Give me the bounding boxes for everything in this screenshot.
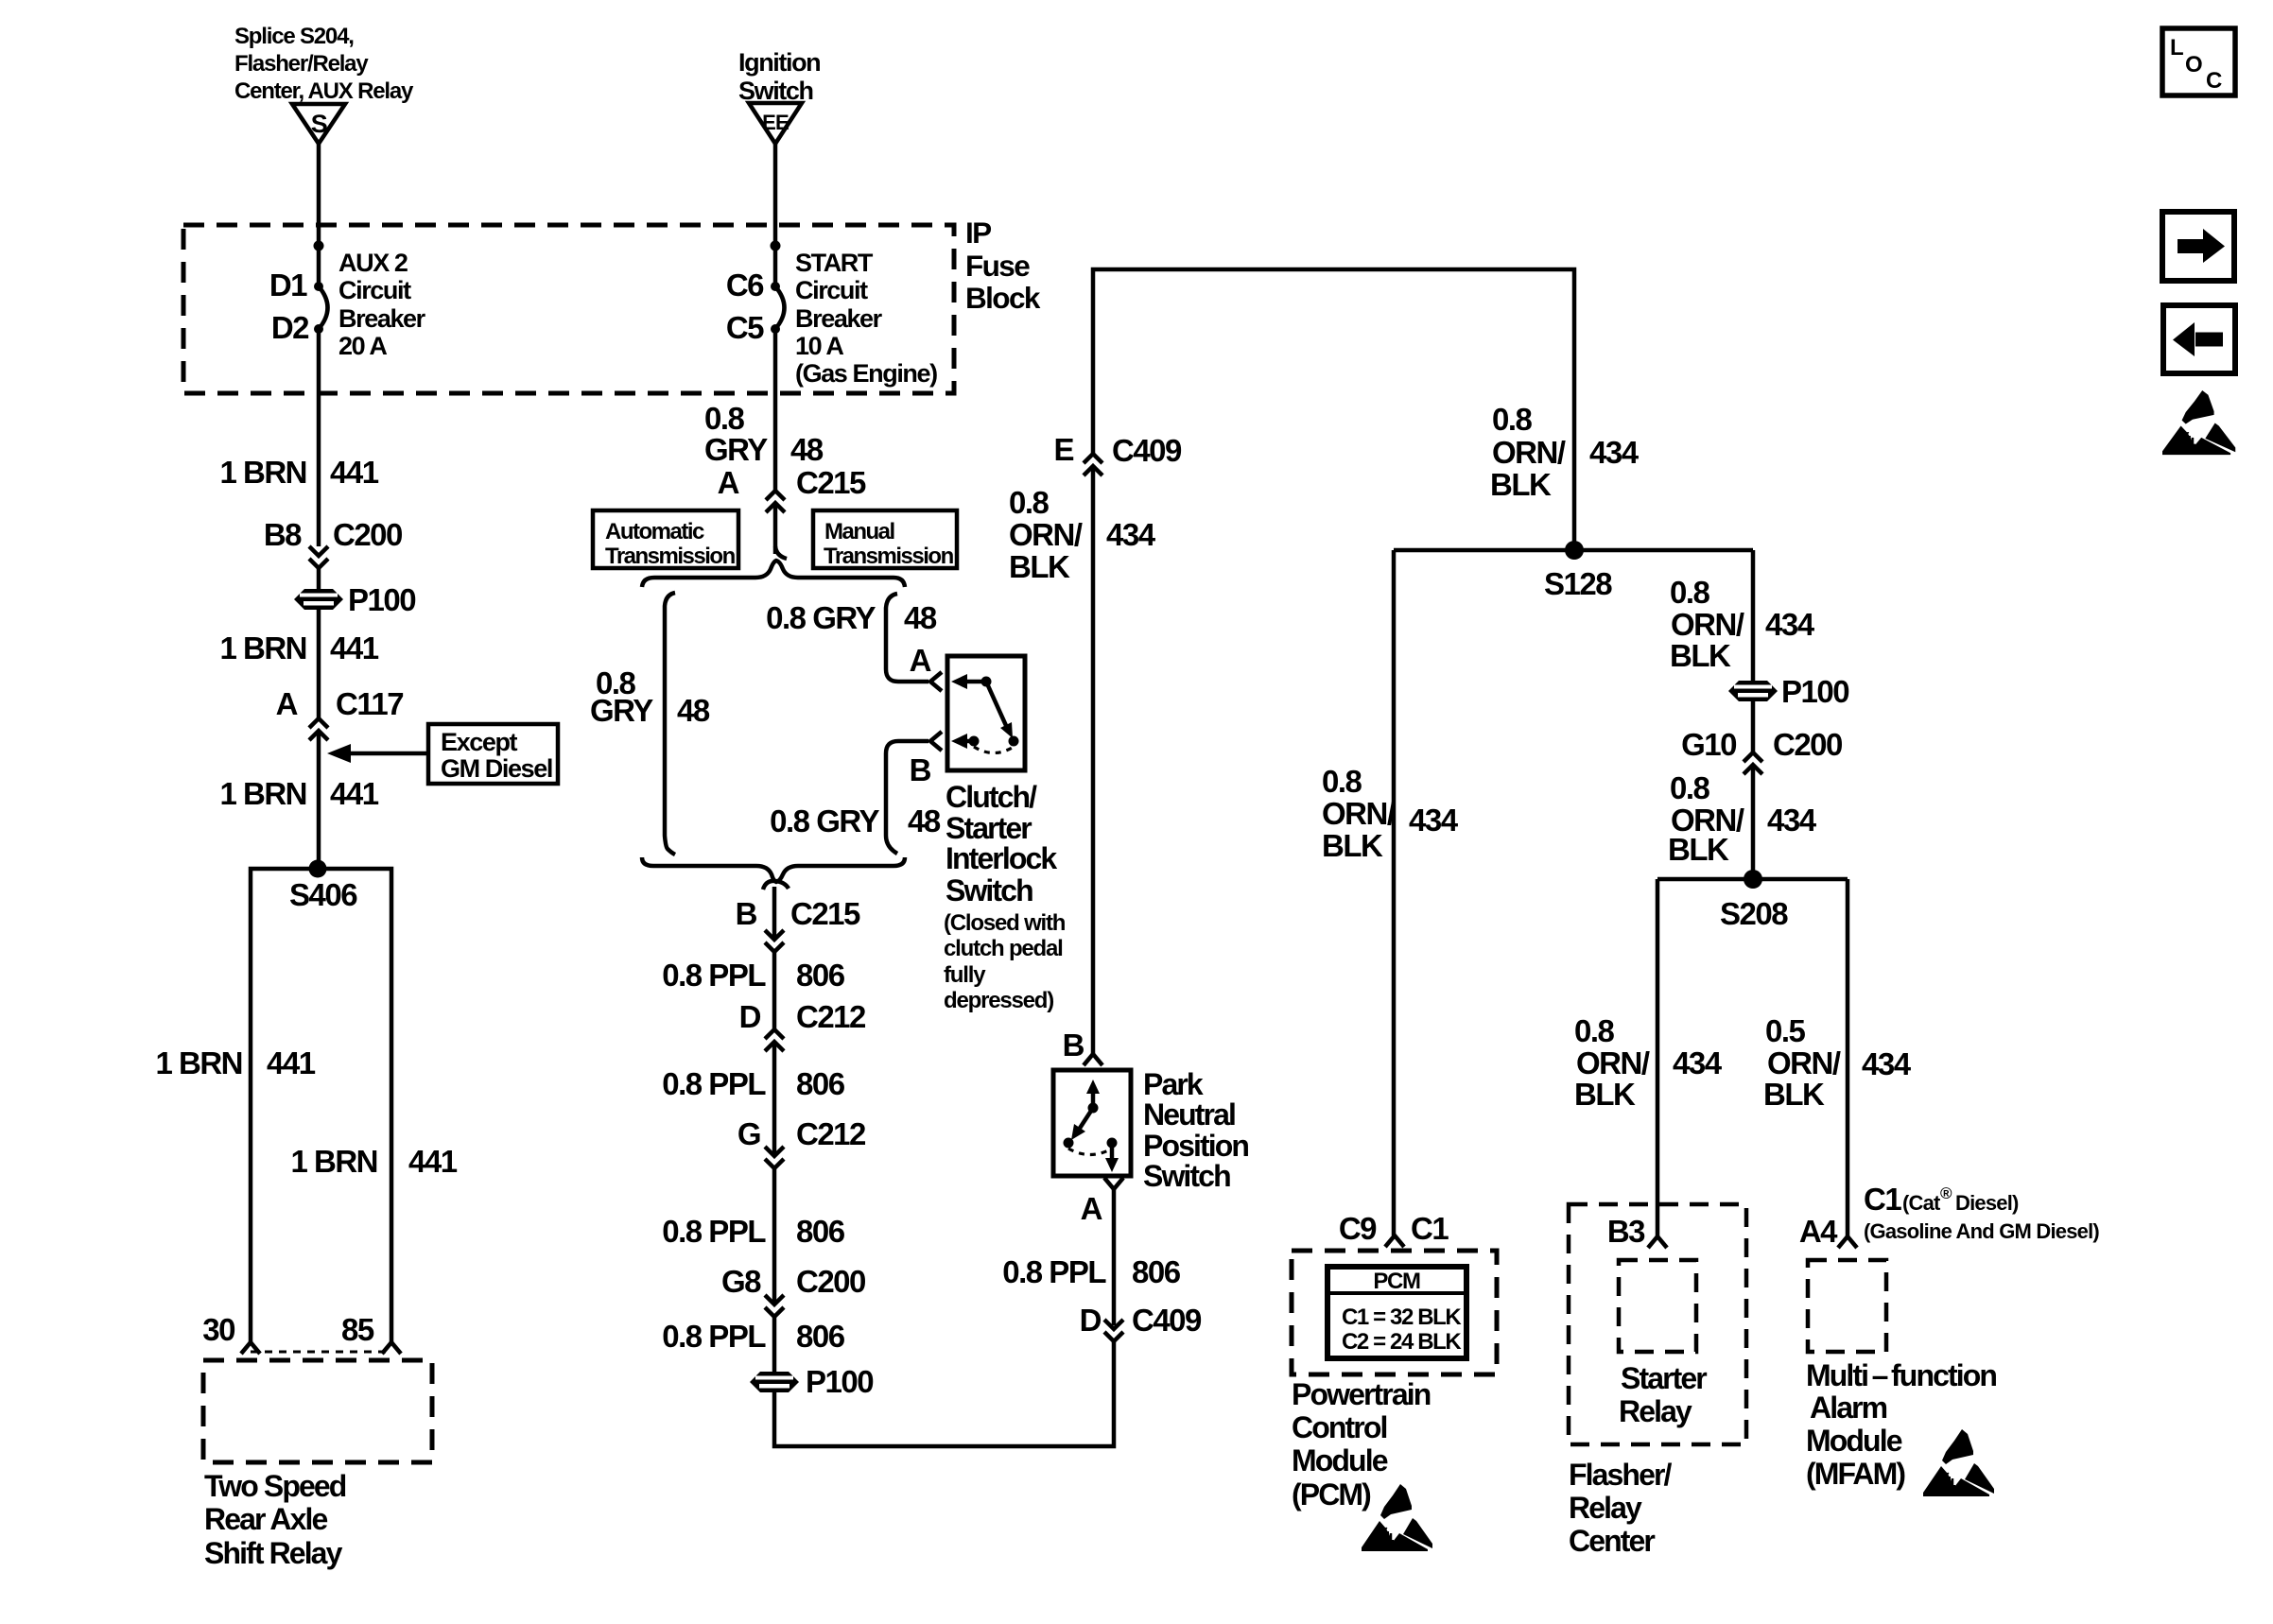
node junction dot wire2 xyxy=(771,241,781,251)
svg-text:C409: C409 xyxy=(1112,433,1182,468)
svg-text:clutch pedal: clutch pedal xyxy=(944,936,1063,961)
wire park exit down xyxy=(1112,1189,1117,1325)
svg-text:1 BRN: 1 BRN xyxy=(219,776,306,811)
svg-text:1 BRN: 1 BRN xyxy=(290,1144,377,1179)
svg-text:441: 441 xyxy=(330,455,379,490)
svg-text:C: C xyxy=(2206,68,2222,94)
svg-text:C200: C200 xyxy=(1773,727,1842,762)
wire rectangle to relay xyxy=(251,869,391,1342)
connector P100 lower xyxy=(750,1372,799,1392)
circuit breaker START pin C5 xyxy=(771,324,780,334)
merge brace bottom xyxy=(642,857,905,882)
Flasher relay center dashed box xyxy=(1569,1204,1746,1444)
svg-text:A4: A4 xyxy=(1799,1214,1838,1249)
svg-text:A: A xyxy=(1081,1191,1102,1226)
svg-text:B: B xyxy=(910,752,931,787)
svg-text:Interlock: Interlock xyxy=(946,841,1057,875)
wire xyxy=(772,1042,777,1156)
park entry pin chevron xyxy=(1084,1054,1102,1065)
svg-text:0.8 PPL: 0.8 PPL xyxy=(662,958,766,993)
circuit breaker START arc xyxy=(775,286,785,329)
svg-text:C1: C1 xyxy=(1411,1211,1449,1246)
left span bracket xyxy=(665,593,675,855)
svg-text:Center: Center xyxy=(1569,1524,1655,1558)
svg-text:Module: Module xyxy=(1806,1424,1902,1458)
wire xyxy=(772,1317,777,1372)
svg-text:B8: B8 xyxy=(264,517,302,552)
svg-text:Circuit: Circuit xyxy=(338,276,411,304)
fine dashed pin row xyxy=(251,1351,391,1354)
svg-text:434: 434 xyxy=(1862,1046,1912,1081)
svg-text:BLK: BLK xyxy=(1670,638,1731,673)
PCM outer dashed box xyxy=(1292,1251,1497,1374)
svg-text:EE: EE xyxy=(762,111,789,134)
MFAM dashed box xyxy=(1808,1260,1886,1352)
svg-text:Breaker: Breaker xyxy=(338,304,426,333)
svg-text:441: 441 xyxy=(408,1144,458,1179)
svg-text:GRY: GRY xyxy=(590,693,653,728)
svg-text:48: 48 xyxy=(790,432,824,467)
LOC reference box xyxy=(2162,28,2235,95)
svg-text:A: A xyxy=(276,686,298,721)
splice S128 xyxy=(1565,541,1584,560)
park switch blade xyxy=(1077,1108,1093,1132)
svg-text:B: B xyxy=(1063,1028,1084,1063)
pin chevron left xyxy=(241,1342,260,1354)
split brace top xyxy=(642,561,905,587)
svg-text:C5: C5 xyxy=(726,310,764,345)
ESD symbol PCM xyxy=(1362,1484,1432,1551)
wire xyxy=(1751,701,1756,752)
svg-text:Ignition: Ignition xyxy=(738,48,820,77)
svg-text:441: 441 xyxy=(330,631,379,665)
svg-text:C117: C117 xyxy=(336,686,403,721)
svg-text:Park: Park xyxy=(1143,1067,1204,1101)
svg-text:A: A xyxy=(718,465,739,500)
svg-text:IP: IP xyxy=(965,216,991,250)
wire to split brace xyxy=(773,503,778,554)
wire D2 down xyxy=(317,329,321,546)
svg-text:Block: Block xyxy=(965,281,1041,315)
svg-text:Fuse: Fuse xyxy=(965,249,1030,283)
splice S406 xyxy=(309,860,327,878)
svg-text:(Gas Engine): (Gas Engine) xyxy=(795,359,937,388)
svg-text:Automatic: Automatic xyxy=(605,519,704,544)
svg-text:O: O xyxy=(2185,52,2202,78)
relay dashed box xyxy=(203,1360,432,1462)
wire to S208 xyxy=(1751,765,1756,879)
splice S208 xyxy=(1744,870,1762,889)
svg-text:B: B xyxy=(736,896,757,931)
svg-text:ORN/: ORN/ xyxy=(1767,1045,1841,1080)
svg-text:(Cat: (Cat xyxy=(1902,1191,1941,1215)
svg-text:806: 806 xyxy=(796,1066,845,1101)
svg-text:441: 441 xyxy=(330,776,379,811)
svg-text:(Gasoline And GM Diesel): (Gasoline And GM Diesel) xyxy=(1864,1219,2099,1243)
svg-text:BLK: BLK xyxy=(1009,549,1070,584)
right span bracket top with pin A feed xyxy=(886,594,928,682)
svg-text:(PCM): (PCM) xyxy=(1292,1477,1371,1512)
IP fuse block dashed box xyxy=(183,225,954,393)
svg-text:434: 434 xyxy=(1767,803,1817,838)
connector P100 right xyxy=(1728,681,1778,701)
svg-text:BLK: BLK xyxy=(1490,467,1552,502)
svg-text:G10: G10 xyxy=(1681,727,1736,762)
node junction dot wire1 xyxy=(314,241,324,251)
arrow left box xyxy=(2163,305,2235,373)
svg-text:START: START xyxy=(795,249,874,277)
svg-text:0.8 GRY: 0.8 GRY xyxy=(766,600,876,635)
svg-text:BLK: BLK xyxy=(1322,828,1383,863)
svg-text:0.5: 0.5 xyxy=(1765,1013,1806,1048)
svg-text:PCM: PCM xyxy=(1373,1269,1420,1294)
S208 bus xyxy=(1657,877,1848,882)
park neutral position switch box xyxy=(1053,1070,1131,1176)
svg-text:BLK: BLK xyxy=(1574,1077,1636,1112)
svg-text:Manual: Manual xyxy=(824,519,894,544)
PCM inner box xyxy=(1327,1267,1466,1358)
svg-text:Two Speed: Two Speed xyxy=(204,1469,346,1503)
wire xyxy=(317,731,321,869)
svg-text:434: 434 xyxy=(1673,1045,1723,1080)
ESD symbol margin xyxy=(2162,390,2235,455)
svg-text:Module: Module xyxy=(1292,1443,1388,1477)
wire xyxy=(772,952,777,1029)
svg-text:806: 806 xyxy=(1132,1254,1181,1289)
option box Automatic Transmission xyxy=(593,510,738,568)
clutch switch inner arrow B xyxy=(951,734,967,749)
wire start hook xyxy=(763,881,789,890)
park exit pin chevron xyxy=(1104,1178,1123,1189)
svg-text:C409: C409 xyxy=(1132,1303,1202,1338)
svg-text:C215: C215 xyxy=(796,465,866,500)
wire xyxy=(317,568,321,589)
svg-text:ORN/: ORN/ xyxy=(1322,796,1396,831)
wire S208 to MFAM xyxy=(1846,879,1850,1236)
svg-text:(Closed with: (Closed with xyxy=(944,910,1066,936)
svg-text:85: 85 xyxy=(341,1312,374,1347)
svg-text:10 A: 10 A xyxy=(795,332,843,360)
svg-text:Neutral: Neutral xyxy=(1143,1097,1235,1132)
connector P100 xyxy=(294,589,343,610)
svg-text:0.8 GRY: 0.8 GRY xyxy=(770,803,879,838)
svg-text:0.8: 0.8 xyxy=(1492,402,1533,437)
svg-text:®: ® xyxy=(1940,1184,1952,1202)
svg-text:G8: G8 xyxy=(721,1264,761,1299)
svg-text:Switch: Switch xyxy=(946,873,1032,907)
svg-text:434: 434 xyxy=(1106,517,1156,552)
svg-text:1 BRN: 1 BRN xyxy=(219,455,306,490)
svg-text:0.8 PPL: 0.8 PPL xyxy=(662,1214,766,1249)
svg-text:Center, AUX Relay: Center, AUX Relay xyxy=(234,78,414,104)
clutch switch box xyxy=(947,656,1025,770)
park switch inner down arrow xyxy=(1110,1143,1115,1160)
svg-text:48: 48 xyxy=(904,600,937,635)
off-page triangle S xyxy=(292,104,345,144)
svg-text:P100: P100 xyxy=(348,582,415,617)
svg-text:ORN/: ORN/ xyxy=(1009,517,1083,552)
svg-text:Transmission: Transmission xyxy=(605,544,736,569)
option box Manual Transmission xyxy=(813,510,957,568)
svg-text:0.8 PPL: 0.8 PPL xyxy=(1002,1254,1106,1289)
svg-text:S406: S406 xyxy=(289,877,357,912)
svg-text:0.8: 0.8 xyxy=(1574,1013,1615,1048)
svg-text:S208: S208 xyxy=(1720,896,1788,931)
circuit breaker AUX2 pin D1 xyxy=(314,282,323,291)
wire xyxy=(317,610,321,718)
ESD symbol MFAM xyxy=(1923,1429,1994,1496)
starter relay pin B3 xyxy=(1648,1236,1667,1248)
callout arrow xyxy=(348,752,428,756)
wire S128 to PCM xyxy=(1392,550,1397,1235)
svg-text:Relay: Relay xyxy=(1619,1394,1692,1428)
svg-text:C1 = 32 BLK: C1 = 32 BLK xyxy=(1342,1304,1462,1330)
svg-text:BLK: BLK xyxy=(1668,832,1729,867)
PCM pin C9 C1 xyxy=(1385,1235,1404,1247)
svg-text:C212: C212 xyxy=(796,1116,866,1151)
svg-text:Flasher/Relay: Flasher/Relay xyxy=(234,51,369,77)
svg-text:B3: B3 xyxy=(1607,1214,1645,1249)
svg-text:fully: fully xyxy=(944,962,986,988)
svg-text:Flasher/: Flasher/ xyxy=(1569,1458,1673,1492)
wire S208 to starter relay xyxy=(1656,879,1660,1236)
svg-text:A: A xyxy=(910,643,931,678)
off-page triangle EE xyxy=(749,103,802,144)
svg-text:Shift Relay: Shift Relay xyxy=(204,1536,343,1570)
svg-text:Switch: Switch xyxy=(738,77,813,105)
svg-text:Powertrain: Powertrain xyxy=(1292,1377,1431,1411)
svg-text:C200: C200 xyxy=(796,1264,865,1299)
pin chevron right xyxy=(382,1342,401,1354)
svg-text:Switch: Switch xyxy=(1143,1159,1230,1193)
svg-text:P100: P100 xyxy=(806,1364,873,1399)
svg-text:434: 434 xyxy=(1765,607,1815,642)
right span bracket bottom with pin B feed xyxy=(886,741,928,854)
svg-text:Splice S204,: Splice S204, xyxy=(234,24,354,49)
arrow right box xyxy=(2162,212,2234,281)
svg-text:0.8: 0.8 xyxy=(1009,485,1050,520)
svg-text:441: 441 xyxy=(267,1045,316,1080)
svg-text:30: 30 xyxy=(202,1312,234,1347)
svg-text:depressed): depressed) xyxy=(944,988,1053,1013)
svg-text:L: L xyxy=(2170,35,2183,60)
wire from EE triangle xyxy=(773,144,778,286)
svg-text:Clutch/: Clutch/ xyxy=(946,780,1037,814)
clutch pin A chevron xyxy=(930,672,942,691)
svg-text:AUX 2: AUX 2 xyxy=(338,249,408,277)
svg-text:434: 434 xyxy=(1589,435,1640,470)
svg-text:Starter: Starter xyxy=(1621,1361,1707,1395)
svg-text:1 BRN: 1 BRN xyxy=(155,1045,242,1080)
svg-text:C1: C1 xyxy=(1864,1182,1901,1217)
wire top run to S128 xyxy=(1093,269,1574,550)
park switch inner up arrow xyxy=(1091,1091,1096,1108)
clutch pin B chevron xyxy=(930,732,942,751)
svg-text:GRY: GRY xyxy=(704,432,768,467)
clutch switch inner arrow A xyxy=(951,674,967,689)
wire E column xyxy=(1091,466,1096,1054)
wire end hook xyxy=(775,546,787,559)
svg-text:C2 = 24 BLK: C2 = 24 BLK xyxy=(1342,1329,1462,1355)
svg-text:Circuit: Circuit xyxy=(795,276,868,304)
svg-text:Rear Axle: Rear Axle xyxy=(204,1502,327,1536)
wire S128 to P100 right xyxy=(1751,550,1756,683)
svg-text:1 BRN: 1 BRN xyxy=(219,631,306,665)
wire C5 down xyxy=(773,329,778,491)
svg-text:434: 434 xyxy=(1409,803,1459,838)
svg-text:0.8 PPL: 0.8 PPL xyxy=(662,1066,766,1101)
svg-text:ORN/: ORN/ xyxy=(1671,607,1744,642)
svg-text:E: E xyxy=(1053,432,1073,467)
circuit breaker AUX2 arc xyxy=(319,286,328,329)
svg-text:806: 806 xyxy=(796,1214,845,1249)
wire from S triangle xyxy=(317,144,321,286)
svg-text:G: G xyxy=(737,1116,760,1151)
svg-text:C212: C212 xyxy=(796,999,866,1034)
svg-text:Multi – function: Multi – function xyxy=(1806,1358,1996,1392)
svg-text:0.8: 0.8 xyxy=(1322,764,1362,799)
svg-text:S128: S128 xyxy=(1544,566,1612,601)
svg-text:C6: C6 xyxy=(726,268,764,302)
svg-text:Transmission: Transmission xyxy=(824,544,954,569)
callout box Except GM Diesel xyxy=(428,724,558,784)
svg-text:48: 48 xyxy=(908,803,941,838)
svg-text:0.8: 0.8 xyxy=(704,401,745,436)
svg-text:D2: D2 xyxy=(271,310,309,345)
svg-text:0.8: 0.8 xyxy=(1670,770,1710,805)
clutch switch blade xyxy=(986,682,1008,730)
MFAM pin A4 xyxy=(1838,1236,1857,1248)
svg-text:C9: C9 xyxy=(1339,1211,1377,1246)
svg-text:Control: Control xyxy=(1292,1410,1386,1444)
park switch dashed arc xyxy=(1068,1149,1112,1155)
wire L-run to park switch xyxy=(774,1341,1114,1446)
svg-text:GM Diesel: GM Diesel xyxy=(441,754,552,783)
svg-text:0.8: 0.8 xyxy=(1670,575,1710,610)
svg-text:Alarm: Alarm xyxy=(1810,1391,1887,1425)
svg-text:BLK: BLK xyxy=(1763,1077,1825,1112)
svg-text:S: S xyxy=(311,110,327,138)
svg-text:20 A: 20 A xyxy=(338,332,387,360)
svg-text:Relay: Relay xyxy=(1569,1491,1642,1525)
svg-text:P100: P100 xyxy=(1781,674,1848,709)
wire below merge xyxy=(772,887,777,940)
svg-text:Except: Except xyxy=(441,728,518,756)
svg-text:48: 48 xyxy=(677,693,710,728)
svg-text:806: 806 xyxy=(796,958,845,993)
svg-text:Breaker: Breaker xyxy=(795,304,883,333)
svg-text:ORN/: ORN/ xyxy=(1576,1045,1650,1080)
svg-text:Position: Position xyxy=(1143,1129,1248,1163)
svg-text:Starter: Starter xyxy=(946,811,1032,845)
clutch switch dashed arc xyxy=(974,747,1014,753)
svg-text:D: D xyxy=(1080,1303,1102,1338)
svg-text:C200: C200 xyxy=(333,517,402,552)
svg-text:806: 806 xyxy=(796,1319,845,1354)
svg-text:D: D xyxy=(739,999,761,1034)
starter relay dashed box xyxy=(1619,1260,1696,1352)
circuit breaker START pin C6 xyxy=(771,282,780,291)
circuit breaker AUX2 pin D2 xyxy=(314,324,323,334)
svg-text:C215: C215 xyxy=(790,896,860,931)
S128 bus xyxy=(1394,548,1753,553)
svg-text:ORN/: ORN/ xyxy=(1492,435,1566,470)
svg-text:(MFAM): (MFAM) xyxy=(1806,1457,1905,1491)
wire xyxy=(772,1168,777,1304)
svg-text:Diesel): Diesel) xyxy=(1955,1191,2019,1215)
svg-text:0.8 PPL: 0.8 PPL xyxy=(662,1319,766,1354)
svg-text:D1: D1 xyxy=(269,268,307,302)
